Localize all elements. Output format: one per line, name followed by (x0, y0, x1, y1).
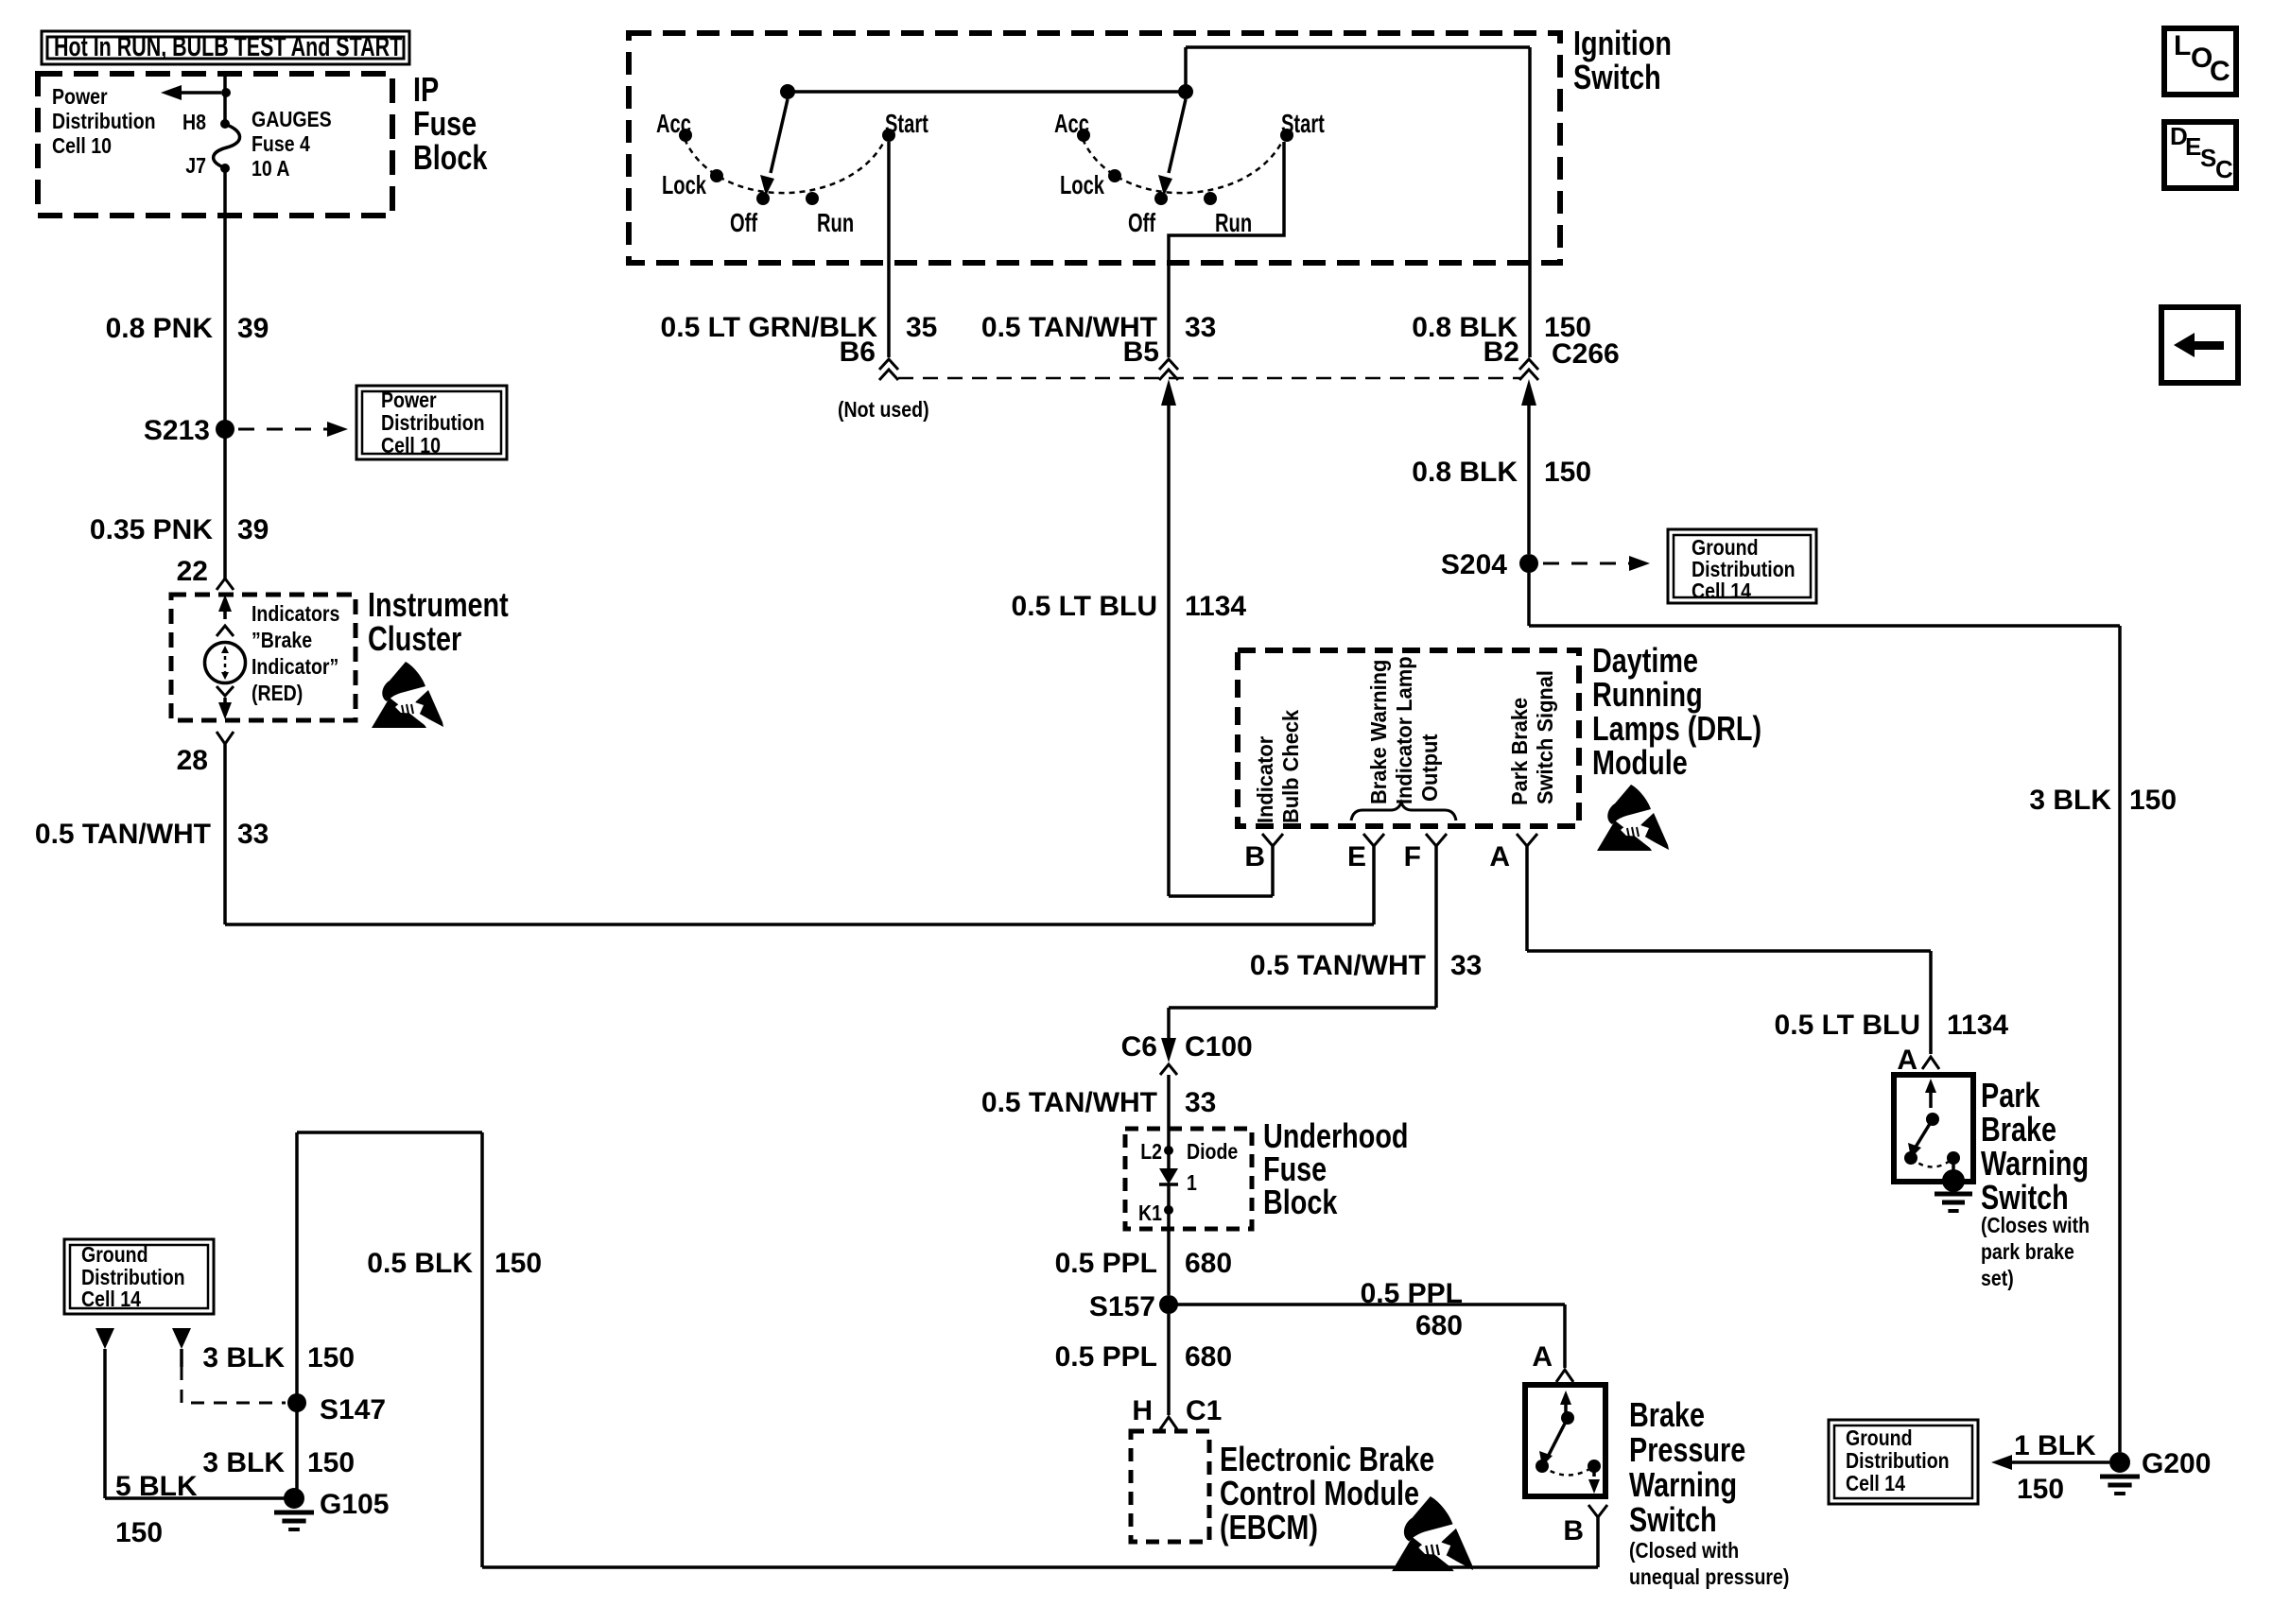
svg-text:0.8 BLK: 0.8 BLK (1412, 457, 1518, 488)
svg-text:Output: Output (1417, 734, 1442, 802)
svg-text:Run: Run (1215, 209, 1252, 238)
svg-text:150: 150 (115, 1517, 163, 1548)
svg-text:680: 680 (1415, 1310, 1463, 1341)
svg-text:S213: S213 (144, 415, 210, 446)
svg-text:B: B (1563, 1515, 1584, 1546)
svg-text:unequal pressure): unequal pressure) (1629, 1565, 1789, 1590)
svg-text:Block: Block (1263, 1183, 1338, 1221)
svg-text:0.5 TAN/WHT: 0.5 TAN/WHT (1250, 950, 1426, 981)
svg-text:Indicators: Indicators (252, 602, 339, 627)
svg-text:Ground: Ground (81, 1243, 148, 1268)
svg-text:680: 680 (1185, 1248, 1232, 1279)
svg-text:Switch: Switch (1629, 1500, 1717, 1539)
svg-text:33: 33 (1450, 950, 1482, 981)
svg-text:22: 22 (177, 556, 208, 587)
svg-text:K1: K1 (1138, 1201, 1162, 1226)
svg-text:150: 150 (307, 1447, 355, 1478)
svg-text:Indicator”: Indicator” (252, 655, 338, 680)
svg-text:C100: C100 (1185, 1031, 1253, 1063)
svg-text:H8: H8 (182, 111, 206, 135)
svg-text:S157: S157 (1089, 1291, 1155, 1322)
svg-text:39: 39 (237, 514, 269, 545)
svg-text:Indicator Lamp: Indicator Lamp (1392, 656, 1416, 804)
svg-text:L2: L2 (1140, 1140, 1162, 1165)
svg-text:Bulb Check: Bulb Check (1278, 709, 1303, 823)
svg-text:0.5 PPL: 0.5 PPL (1055, 1248, 1157, 1279)
svg-text:Off: Off (1128, 209, 1156, 238)
svg-text:Lock: Lock (1060, 171, 1104, 200)
svg-text:35: 35 (906, 312, 937, 343)
svg-text:Brake: Brake (1629, 1395, 1705, 1434)
svg-text:Module: Module (1592, 743, 1688, 782)
svg-text:33: 33 (1185, 312, 1216, 343)
svg-text:Distribution: Distribution (1846, 1449, 1950, 1474)
svg-text:0.5 BLK: 0.5 BLK (367, 1248, 473, 1279)
svg-text:set): set) (1981, 1267, 2014, 1291)
svg-text:Switch: Switch (1981, 1178, 2069, 1217)
svg-text:Ignition: Ignition (1573, 24, 1672, 62)
svg-text:33: 33 (1185, 1087, 1216, 1118)
svg-text:Switch: Switch (1573, 58, 1661, 96)
svg-text:Cluster: Cluster (368, 619, 461, 658)
svg-text:Cell 14: Cell 14 (1692, 579, 1751, 604)
svg-text:150: 150 (2129, 785, 2177, 816)
svg-text:B6: B6 (840, 337, 876, 368)
svg-text:Start: Start (885, 110, 928, 139)
svg-text:0.5 LT BLU: 0.5 LT BLU (1012, 591, 1157, 622)
svg-text:Run: Run (817, 209, 854, 238)
svg-text:B5: B5 (1123, 337, 1159, 368)
svg-text:150: 150 (2017, 1474, 2064, 1505)
svg-text:Warning: Warning (1629, 1465, 1737, 1504)
svg-text:150: 150 (1544, 457, 1591, 488)
svg-text:Fuse: Fuse (413, 104, 477, 143)
svg-text:C: C (2215, 155, 2233, 183)
svg-text:Cell 10: Cell 10 (52, 134, 112, 159)
svg-text:Electronic Brake: Electronic Brake (1220, 1440, 1434, 1478)
svg-text:1: 1 (1187, 1171, 1197, 1196)
svg-text:Brake Warning: Brake Warning (1366, 660, 1391, 804)
svg-text:(Closes with: (Closes with (1981, 1214, 2090, 1238)
svg-text:Daytime: Daytime (1592, 641, 1698, 680)
svg-text:Lock: Lock (662, 171, 706, 200)
svg-text:Cell 14: Cell 14 (1846, 1472, 1905, 1496)
svg-text:”Brake: ”Brake (252, 629, 312, 653)
svg-text:G200: G200 (2142, 1448, 2211, 1479)
svg-text:Switch Signal: Switch Signal (1533, 670, 1557, 804)
svg-text:GAUGES: GAUGES (252, 108, 332, 132)
svg-text:A: A (1897, 1045, 1917, 1076)
svg-text:Warning: Warning (1981, 1144, 2089, 1183)
svg-text:0.8 PNK: 0.8 PNK (106, 313, 214, 344)
svg-text:B2: B2 (1484, 337, 1519, 368)
svg-text:H: H (1132, 1395, 1153, 1426)
svg-text:0.5 PPL: 0.5 PPL (1361, 1278, 1463, 1309)
svg-text:B: B (1244, 841, 1265, 872)
svg-text:Block: Block (413, 138, 488, 177)
svg-text:(EBCM): (EBCM) (1220, 1508, 1318, 1546)
svg-text:Instrument: Instrument (368, 585, 509, 624)
svg-text:Fuse 4: Fuse 4 (252, 132, 310, 157)
svg-text:3 BLK: 3 BLK (202, 1342, 285, 1373)
svg-text:28: 28 (177, 745, 208, 776)
svg-text:Ground: Ground (1846, 1426, 1913, 1451)
svg-text:Diode: Diode (1187, 1140, 1238, 1165)
svg-text:Indicator: Indicator (1253, 736, 1277, 823)
svg-text:Acc: Acc (656, 110, 691, 139)
svg-text:Distribution: Distribution (81, 1266, 185, 1290)
svg-text:S: S (2200, 144, 2216, 172)
svg-text:E: E (1347, 841, 1366, 872)
svg-text:IP: IP (413, 70, 439, 109)
svg-text:G105: G105 (320, 1489, 389, 1520)
svg-text:150: 150 (307, 1342, 355, 1373)
svg-text:Park Brake: Park Brake (1507, 698, 1532, 805)
svg-text:(Closed with: (Closed with (1629, 1539, 1739, 1564)
svg-text:(RED): (RED) (252, 682, 303, 706)
svg-text:33: 33 (237, 819, 269, 850)
svg-text:Lamps (DRL): Lamps (DRL) (1592, 709, 1761, 748)
svg-text:Ground: Ground (1692, 536, 1759, 561)
svg-text:C266: C266 (1552, 338, 1620, 370)
svg-text:C6: C6 (1121, 1031, 1157, 1063)
svg-text:680: 680 (1185, 1341, 1232, 1373)
svg-text:Off: Off (730, 209, 758, 238)
svg-text:C1: C1 (1186, 1395, 1222, 1426)
svg-text:Pressure: Pressure (1629, 1430, 1745, 1469)
svg-text:0.5 TAN/WHT: 0.5 TAN/WHT (35, 819, 211, 850)
svg-text:C: C (2210, 56, 2230, 87)
svg-text:0.5 TAN/WHT: 0.5 TAN/WHT (981, 1087, 1157, 1118)
svg-text:0.5 PPL: 0.5 PPL (1055, 1341, 1157, 1373)
svg-text:Cell 14: Cell 14 (81, 1287, 141, 1312)
svg-text:0.5 LT BLU: 0.5 LT BLU (1775, 1010, 1920, 1041)
svg-text:Park: Park (1981, 1076, 2040, 1114)
svg-text:39: 39 (237, 313, 269, 344)
svg-text:Distribution: Distribution (52, 110, 156, 134)
svg-text:Distribution: Distribution (1692, 558, 1796, 582)
svg-text:S204: S204 (1441, 549, 1507, 580)
svg-text:Brake: Brake (1981, 1110, 2056, 1149)
svg-text:E: E (2185, 132, 2201, 161)
svg-text:A: A (1489, 841, 1510, 872)
svg-text:Power: Power (381, 389, 437, 413)
svg-text:1134: 1134 (1185, 591, 1246, 622)
svg-text:(Not used): (Not used) (838, 398, 929, 423)
svg-text:F: F (1404, 841, 1421, 872)
svg-text:Control Module: Control Module (1220, 1474, 1419, 1512)
svg-text:Running: Running (1592, 675, 1703, 714)
svg-text:0.35 PNK: 0.35 PNK (90, 514, 213, 545)
svg-text:1134: 1134 (1947, 1010, 2008, 1041)
svg-text:J7: J7 (185, 154, 206, 179)
svg-text:Acc: Acc (1054, 110, 1089, 139)
svg-text:150: 150 (495, 1248, 542, 1279)
svg-text:S147: S147 (320, 1394, 386, 1425)
svg-text:3 BLK: 3 BLK (202, 1447, 285, 1478)
svg-text:A: A (1532, 1341, 1553, 1373)
svg-text:Hot In RUN, BULB TEST And STAR: Hot In RUN, BULB TEST And START (54, 32, 403, 62)
svg-text:5 BLK: 5 BLK (115, 1471, 198, 1502)
svg-text:10 A: 10 A (252, 157, 290, 181)
svg-text:Start: Start (1281, 110, 1325, 139)
svg-text:1 BLK: 1 BLK (2014, 1430, 2096, 1461)
svg-text:park brake: park brake (1981, 1240, 2074, 1265)
svg-text:Distribution: Distribution (381, 411, 485, 436)
svg-text:Cell 10: Cell 10 (381, 434, 441, 458)
svg-text:L: L (2174, 30, 2191, 61)
svg-text:Power: Power (52, 85, 108, 110)
svg-text:3 BLK: 3 BLK (2029, 785, 2111, 816)
